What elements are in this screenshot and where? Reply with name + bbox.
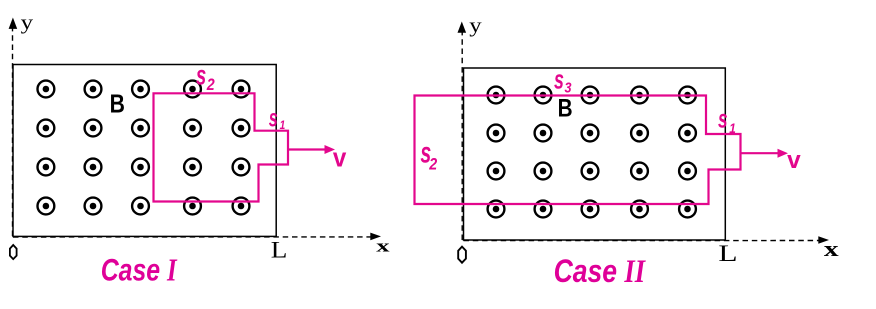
svg-text:y: y	[21, 11, 34, 33]
svg-text:2: 2	[428, 155, 437, 173]
svg-text:v: v	[787, 147, 801, 174]
svg-text:y: y	[469, 14, 482, 36]
svg-text:B: B	[110, 90, 125, 118]
svg-text:Case II: Case II	[554, 253, 647, 289]
svg-text:1: 1	[729, 120, 736, 136]
svg-text:2: 2	[206, 76, 215, 94]
svg-text:s: s	[196, 61, 206, 92]
svg-text:x: x	[376, 236, 389, 255]
svg-text:x: x	[824, 237, 839, 261]
svg-text:1: 1	[280, 119, 286, 132]
svg-text:s: s	[718, 104, 728, 134]
svg-text:3: 3	[565, 78, 572, 95]
svg-text:B: B	[558, 94, 573, 122]
svg-text:s: s	[269, 105, 278, 132]
svg-text:Case I: Case I	[101, 253, 178, 289]
svg-text:L: L	[718, 240, 737, 266]
svg-text:v: v	[333, 144, 346, 173]
svg-text:L: L	[271, 239, 288, 263]
svg-text:s: s	[554, 64, 564, 95]
